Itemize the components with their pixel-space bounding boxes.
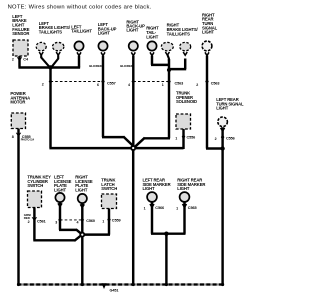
svg-text:SENSOR: SENSOR — [12, 31, 29, 36]
svg-text:SWITCH: SWITCH — [27, 183, 43, 188]
svg-text:LIGHT: LIGHT — [75, 187, 88, 192]
svg-text:C557: C557 — [107, 82, 116, 86]
svg-text:G451: G451 — [110, 288, 119, 292]
svg-text:TAILLIGHTS: TAILLIGHTS — [39, 30, 62, 35]
svg-text:C566: C566 — [155, 206, 164, 210]
svg-text:2: 2 — [42, 83, 44, 87]
svg-text:1: 1 — [102, 219, 104, 223]
svg-text:C560: C560 — [86, 219, 95, 223]
svg-text:BLK/RED: BLK/RED — [120, 64, 134, 68]
svg-text:2: 2 — [12, 57, 14, 61]
svg-text:4: 4 — [77, 221, 79, 225]
svg-text:SWITCH: SWITCH — [101, 186, 117, 191]
svg-text:4: 4 — [128, 83, 130, 87]
svg-text:1: 1 — [176, 207, 178, 211]
svg-text:C563: C563 — [175, 82, 184, 86]
svg-text:RED: RED — [24, 216, 31, 220]
svg-text:6: 6 — [97, 83, 99, 87]
svg-text:2: 2 — [28, 220, 30, 224]
svg-text:LIGHT: LIGHT — [126, 28, 139, 33]
svg-text:LIGHT: LIGHT — [202, 30, 215, 35]
svg-text:SOLENOID: SOLENOID — [176, 99, 197, 104]
svg-text:C561: C561 — [37, 219, 46, 223]
svg-text:3: 3 — [55, 221, 57, 225]
svg-text:NOTE: Wires shown without colo: NOTE: Wires shown without color codes ar… — [8, 4, 152, 10]
svg-text:C556: C556 — [226, 136, 235, 140]
svg-text:C556: C556 — [187, 136, 196, 140]
svg-text:LIGHT: LIGHT — [146, 34, 159, 39]
svg-text:LIGHT: LIGHT — [98, 31, 111, 36]
svg-text:C559: C559 — [112, 219, 121, 223]
svg-text:LIGHT: LIGHT — [54, 187, 67, 192]
svg-text:C565: C565 — [188, 206, 197, 210]
svg-text:2: 2 — [215, 137, 217, 141]
svg-text:LIGHT: LIGHT — [216, 106, 229, 111]
svg-text:MOTOR: MOTOR — [10, 100, 25, 105]
svg-text:2: 2 — [196, 83, 198, 87]
svg-text:TAILLIGHTS: TAILLIGHTS — [167, 31, 190, 36]
svg-text:1: 1 — [162, 83, 164, 87]
svg-text:1: 1 — [144, 207, 146, 211]
svg-text:BLK/RED: BLK/RED — [89, 64, 103, 68]
svg-text:TAILLIGHT: TAILLIGHT — [71, 29, 92, 34]
svg-text:1: 1 — [175, 136, 177, 140]
svg-text:C563: C563 — [211, 82, 220, 86]
svg-text:8: 8 — [12, 135, 14, 139]
svg-text:LIGHT: LIGHT — [177, 186, 190, 191]
svg-text:PHOTO 114: PHOTO 114 — [21, 138, 35, 142]
svg-text:LIGHT: LIGHT — [143, 186, 156, 191]
